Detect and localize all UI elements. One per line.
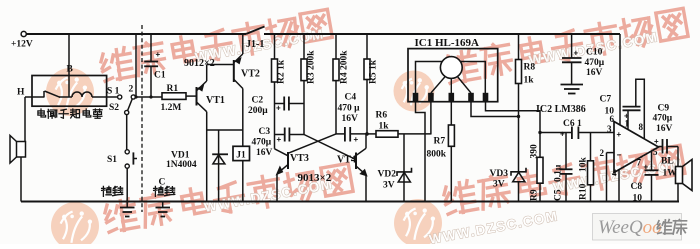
svg-text:1.2M: 1.2M xyxy=(161,103,182,113)
svg-text:+: + xyxy=(354,135,359,144)
IC1 blob lead wires xyxy=(431,77,445,94)
pin 2 input wire to ground xyxy=(607,152,615,154)
svg-text:9012×2: 9012×2 xyxy=(184,58,215,69)
resistor R10 10k xyxy=(590,133,592,161)
svg-text:+: + xyxy=(654,137,659,146)
svg-text:800k: 800k xyxy=(427,150,447,160)
horn speaker (left) xyxy=(17,142,26,158)
svg-text:10k: 10k xyxy=(579,157,589,173)
pin 5 output with cap C9 470u xyxy=(659,146,663,148)
svg-text:2: 2 xyxy=(600,148,605,158)
resistor R2 1k xyxy=(272,59,278,82)
svg-text:BL: BL xyxy=(661,157,674,167)
speaker BL 1W xyxy=(677,147,679,167)
svg-text:+: + xyxy=(276,104,281,113)
svg-text:1k: 1k xyxy=(524,76,535,86)
zener diode VD2 3V xyxy=(403,134,405,202)
dashed separation line xyxy=(141,25,143,212)
svg-text:B: B xyxy=(67,65,74,75)
svg-text:+: + xyxy=(574,49,579,58)
svg-text:16V: 16V xyxy=(256,148,273,158)
resistor R9 390 xyxy=(539,133,541,158)
capacitor C10 470u 16V xyxy=(571,34,573,58)
IC1 pin4 wire to supply node xyxy=(471,102,519,117)
ground symbol C terminal xyxy=(162,202,164,208)
relay coil J1 xyxy=(242,130,244,146)
svg-text:5: 5 xyxy=(653,147,658,157)
terminal S1 xyxy=(118,95,122,99)
wire speaker to ground rail xyxy=(20,157,22,202)
IC1 pin1 wire to ground rail xyxy=(416,102,426,202)
svg-text:IC1 HL-169A: IC1 HL-169A xyxy=(415,37,480,49)
svg-text:470 μ: 470 μ xyxy=(338,104,361,114)
wire B from rail into relay box xyxy=(68,34,70,97)
wire S2 to S1 button xyxy=(126,115,128,150)
IC1 internal bus frame xyxy=(416,62,486,94)
transistor VT4 (9013) xyxy=(355,153,357,170)
wire terminal2 to rail xyxy=(135,34,137,97)
svg-text:VT2: VT2 xyxy=(241,69,260,80)
svg-text:390: 390 xyxy=(530,144,540,159)
svg-text:1W: 1W xyxy=(663,169,678,179)
svg-text:C2: C2 xyxy=(252,96,264,106)
svg-text:R4 200k: R4 200k xyxy=(340,50,350,84)
svg-text:1k: 1k xyxy=(379,122,390,132)
svg-text:C1: C1 xyxy=(154,71,166,81)
terminal 2 xyxy=(131,95,135,99)
svg-text:16V: 16V xyxy=(342,114,359,124)
svg-text:+: + xyxy=(277,135,282,144)
svg-text:C3: C3 xyxy=(259,127,271,137)
resistor R4 200k xyxy=(333,59,339,81)
resistor R1 1.2M xyxy=(162,93,186,100)
svg-text:10: 10 xyxy=(633,194,643,204)
svg-text:VD2: VD2 xyxy=(378,170,397,180)
svg-text:VD3: VD3 xyxy=(490,169,509,179)
svg-text:470μ: 470μ xyxy=(252,138,272,148)
WeeQoo watermark box (decorative) xyxy=(593,214,682,241)
svg-text:9013×2: 9013×2 xyxy=(298,172,332,184)
+12V supply terminal xyxy=(21,31,26,36)
svg-text:H: H xyxy=(17,88,25,98)
ground symbol under C10 xyxy=(561,84,584,86)
svg-text:R3 200k: R3 200k xyxy=(307,50,317,84)
capacitor C1 xyxy=(150,34,152,62)
svg-text:+12V: +12V xyxy=(11,40,33,50)
svg-text:R2 1k: R2 1k xyxy=(277,59,287,84)
resistor R3 200k xyxy=(301,59,307,81)
svg-text:S2: S2 xyxy=(109,103,119,113)
svg-text:16V: 16V xyxy=(586,68,603,78)
bottom ground rail xyxy=(21,201,679,203)
wire to R1 xyxy=(135,96,162,98)
svg-text:470μ: 470μ xyxy=(585,58,605,68)
IC1 pin5 output wire xyxy=(486,102,541,133)
IC1 HL-169A music chip xyxy=(408,49,498,102)
capacitor C5 0.1u xyxy=(565,133,567,170)
svg-text:VT1: VT1 xyxy=(206,95,225,106)
svg-text:4: 4 xyxy=(612,168,617,178)
IC1 pin2 wire to trigger node xyxy=(430,102,432,134)
resistor R8 1k xyxy=(516,60,522,84)
svg-text:+: + xyxy=(560,130,565,139)
svg-text:0.1μ: 0.1μ xyxy=(554,164,564,182)
horn relay box xyxy=(32,76,107,107)
svg-text:WeeQoo: WeeQoo xyxy=(598,217,662,238)
svg-text:VT3: VT3 xyxy=(290,153,309,164)
svg-text:C6 1: C6 1 xyxy=(563,119,582,129)
op-amp IC2 LM386 triangle xyxy=(614,122,659,173)
ground symbol left xyxy=(126,202,128,208)
svg-text:R10: R10 xyxy=(579,183,589,200)
svg-text:S1: S1 xyxy=(107,155,117,165)
wire H to horn speaker xyxy=(24,97,26,142)
svg-text:2: 2 xyxy=(129,85,134,95)
svg-text:−: − xyxy=(617,151,622,160)
top +12V rail xyxy=(26,33,246,35)
svg-text:C7: C7 xyxy=(600,95,612,105)
svg-text:R5 1k: R5 1k xyxy=(369,59,379,84)
relay box label (Chinese: horn relay) xyxy=(38,109,46,117)
svg-text:C8: C8 xyxy=(631,182,643,192)
resistor R6 1k horizontal xyxy=(367,133,376,135)
svg-text:16V: 16V xyxy=(656,124,673,134)
pin 1 and pin 8 with gain cap C7 10u xyxy=(627,110,629,129)
svg-text:VD1: VD1 xyxy=(171,151,190,161)
audio input line with coupling cap C6 1u xyxy=(540,132,572,134)
capacitor C2 200u xyxy=(275,103,284,105)
transistor VT3 (9013) xyxy=(275,149,289,156)
capacitor C4 470u xyxy=(336,133,344,135)
label da-tie left xyxy=(102,186,112,196)
resistor R7 800k xyxy=(448,125,454,146)
cross-coupling wires of multivibrator xyxy=(304,135,356,160)
IC1 pin3 wire to R7 xyxy=(450,102,452,125)
resistor R5 1k xyxy=(364,59,370,80)
svg-text:IC2 LM386: IC2 LM386 xyxy=(536,104,586,115)
svg-text:3V: 3V xyxy=(493,180,505,190)
svg-text:1N4004: 1N4004 xyxy=(166,160,197,170)
wire S1 button to rail xyxy=(126,168,128,201)
switch S2 arm xyxy=(128,99,133,111)
svg-text:R9: R9 xyxy=(530,189,540,201)
svg-text:J1-1: J1-1 xyxy=(246,39,264,50)
svg-text:+: + xyxy=(617,130,622,139)
svg-text:470μ: 470μ xyxy=(653,114,673,124)
pin 6 supply wire from rail xyxy=(619,34,621,125)
svg-text:VT4: VT4 xyxy=(337,155,356,166)
svg-text:S 1: S 1 xyxy=(107,87,120,97)
transistor VT2 (9012) xyxy=(233,60,235,82)
svg-text:7: 7 xyxy=(637,158,642,168)
svg-text:+: + xyxy=(156,50,161,59)
svg-text:C5: C5 xyxy=(554,189,564,201)
svg-text:C4: C4 xyxy=(345,93,357,103)
diode VD1 1N4004 xyxy=(218,130,220,202)
relay contact J1-1 in rail xyxy=(246,27,265,35)
svg-text:R6: R6 xyxy=(376,111,388,121)
push button S1 xyxy=(125,150,129,154)
svg-text:8: 8 xyxy=(639,122,644,132)
IC1 pads pins 1-5 xyxy=(413,93,419,102)
svg-text:R1: R1 xyxy=(167,84,179,94)
transistor VT1 (9012) xyxy=(196,87,198,106)
svg-text:C: C xyxy=(159,178,166,188)
svg-text:R8: R8 xyxy=(524,63,536,73)
IC1 chip blob circle xyxy=(440,57,462,79)
pin 7 bypass cap C8 10u xyxy=(651,151,653,170)
svg-text:+: + xyxy=(644,163,649,172)
capacitor C3 470u xyxy=(275,134,285,136)
svg-text:3V: 3V xyxy=(383,181,395,191)
svg-text:10: 10 xyxy=(605,107,615,117)
svg-text:J1: J1 xyxy=(236,151,246,161)
zener diode VD3 3V xyxy=(511,168,526,176)
relay internal wire with contact and coil xyxy=(25,96,44,98)
svg-text:200μ: 200μ xyxy=(248,106,268,116)
pin 4 ground wire xyxy=(618,170,620,202)
svg-text:3: 3 xyxy=(607,124,612,134)
node wire VT1/VD1/J1 xyxy=(207,129,243,131)
svg-text:+: + xyxy=(624,112,629,121)
svg-text:C10: C10 xyxy=(586,48,603,58)
svg-text:R7: R7 xyxy=(434,137,446,147)
svg-text:C9: C9 xyxy=(658,104,670,114)
